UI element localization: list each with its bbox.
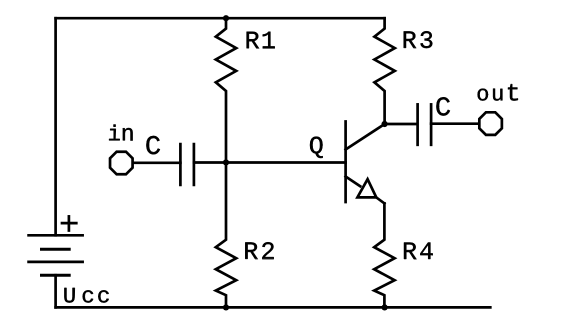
battery plate long xyxy=(29,261,83,264)
terminal out xyxy=(479,112,502,135)
transistor Q emitter arrow triangle xyxy=(357,179,376,197)
node junction base xyxy=(223,159,229,165)
wire left rail xyxy=(54,18,57,235)
resistor R2 xyxy=(216,162,236,307)
node junction collector xyxy=(382,121,388,127)
transistor Q base bar xyxy=(344,122,347,203)
label C input xyxy=(146,136,160,154)
label in xyxy=(109,125,133,141)
battery plate short xyxy=(42,248,70,251)
battery B1 plate long top xyxy=(29,234,83,237)
capacitor C output plate left xyxy=(416,104,419,144)
transistor Q collector lead xyxy=(346,124,385,150)
label R3 xyxy=(404,31,433,48)
wire top rail xyxy=(56,17,385,20)
label out xyxy=(478,84,518,101)
label R4 xyxy=(404,243,433,260)
capacitor C output plate right xyxy=(430,104,433,144)
label Ucc xyxy=(64,288,108,303)
plus sign xyxy=(62,216,76,230)
wire C out to terminal xyxy=(431,122,478,125)
wire in terminal to C xyxy=(134,161,181,164)
wire collector to C out xyxy=(385,123,417,126)
node junction top R1 xyxy=(223,15,229,21)
wire bottom rail xyxy=(56,306,491,309)
capacitor C input plate right xyxy=(193,144,196,185)
node junction R2 bottom xyxy=(223,304,229,310)
terminal in xyxy=(110,152,133,175)
node junction R4 bottom xyxy=(382,304,388,310)
battery plate short bottom xyxy=(42,274,70,277)
label C output xyxy=(436,97,450,115)
label R1 xyxy=(247,32,275,49)
resistor R3 xyxy=(374,18,394,124)
label Q xyxy=(310,137,323,158)
capacitor C input plate left xyxy=(179,144,182,185)
resistor R1 xyxy=(216,18,236,162)
label R2 xyxy=(245,242,273,259)
wire battery to bottom rail xyxy=(54,275,57,307)
resistor R4 xyxy=(374,203,394,307)
wire emitter to R4 corner xyxy=(376,197,384,203)
wire base xyxy=(194,161,346,164)
transistor Q emitter lead xyxy=(346,177,361,187)
